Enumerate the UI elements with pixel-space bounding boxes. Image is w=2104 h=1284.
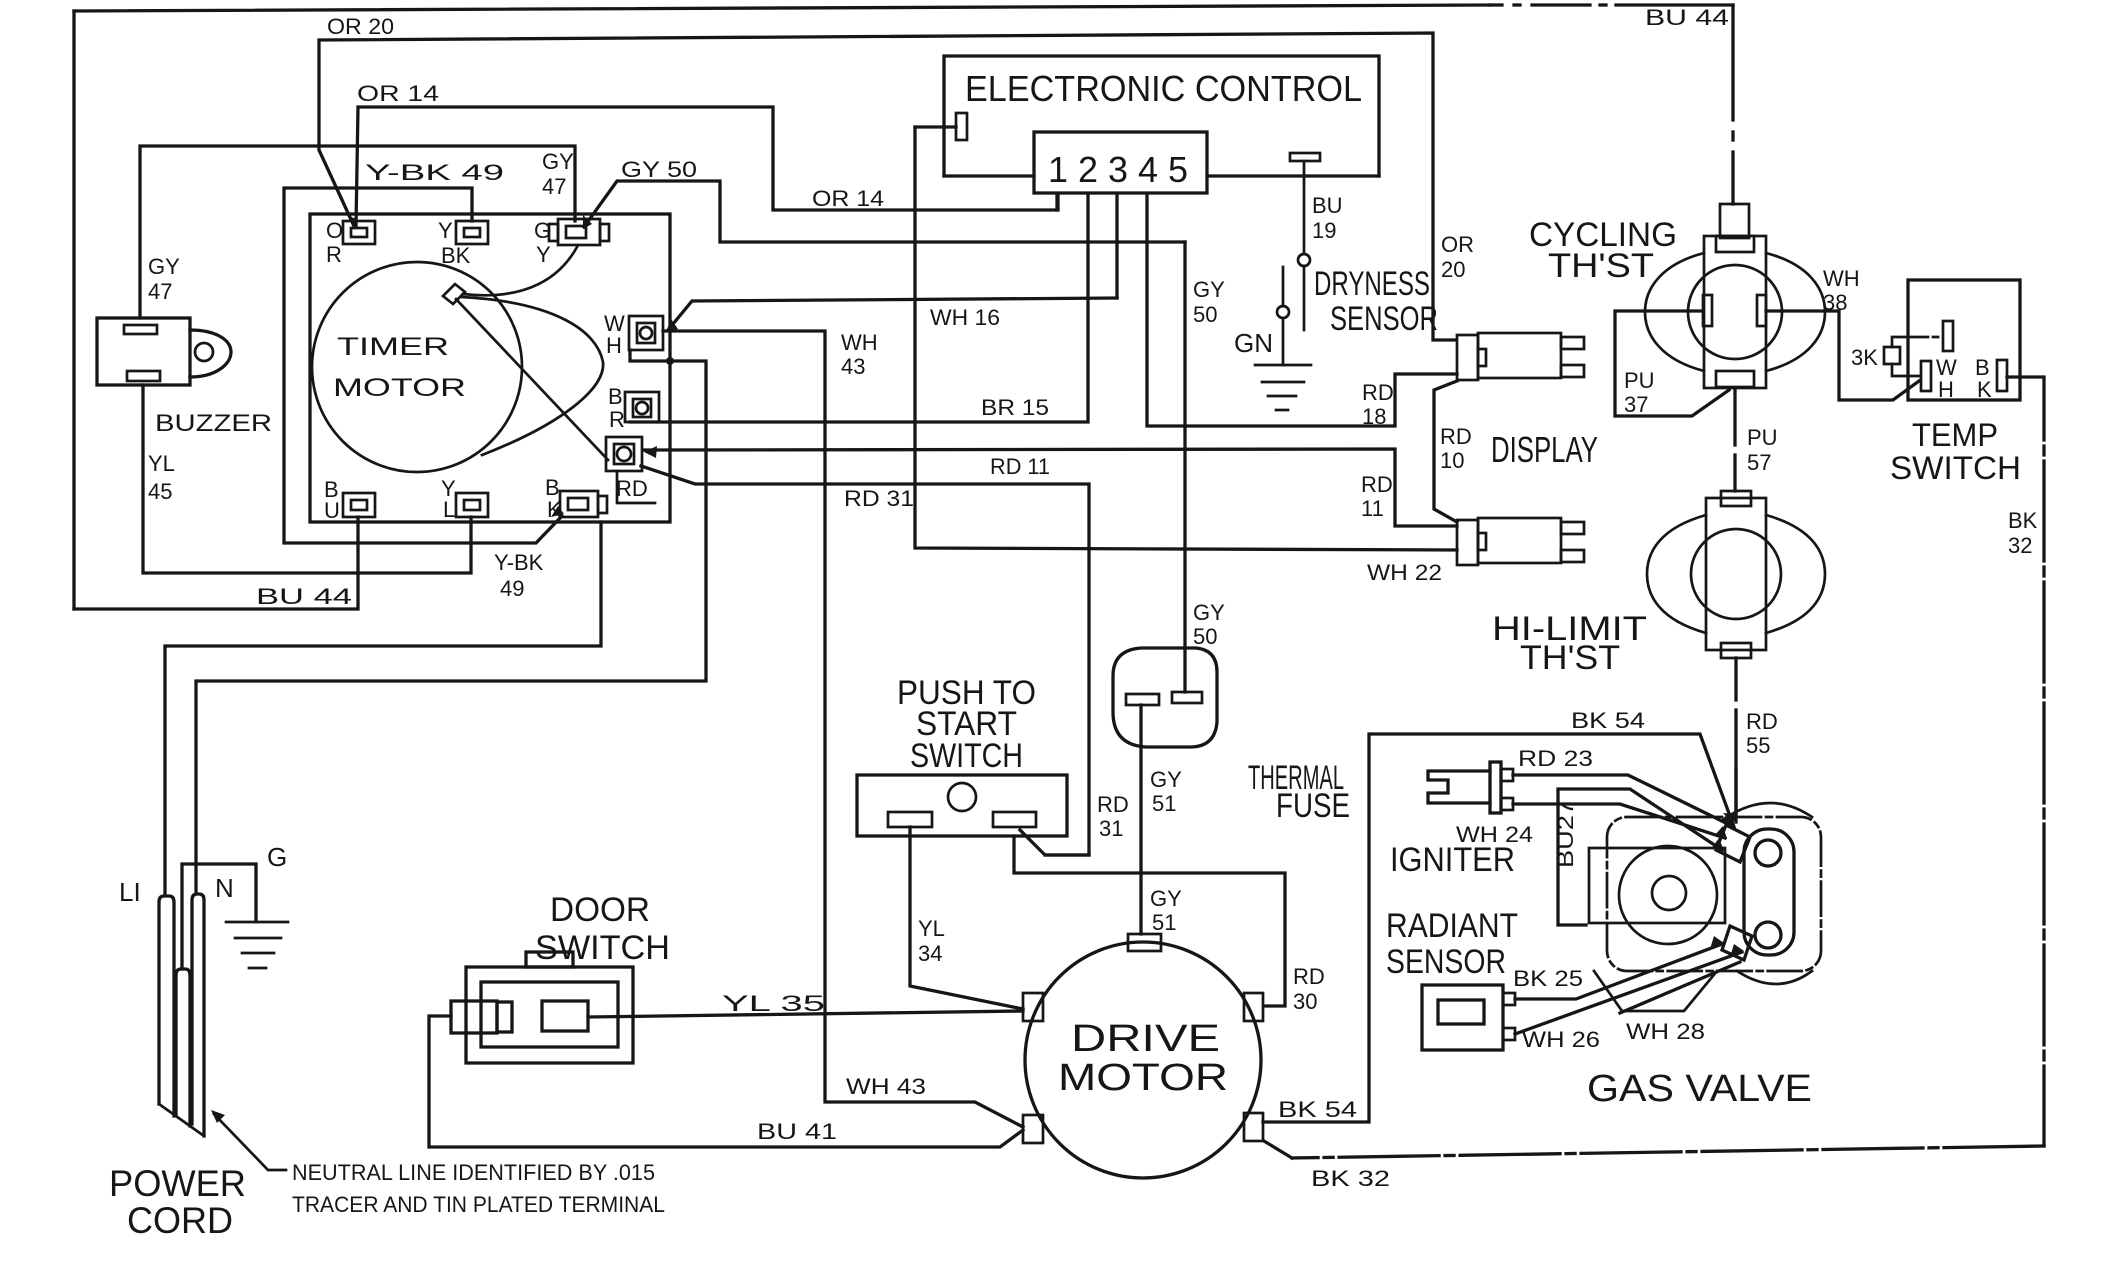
gas valve terminal block lower bbox=[1722, 926, 1752, 960]
svg-text:DRIVE: DRIVE bbox=[1071, 1018, 1220, 1060]
svg-text:PU: PU bbox=[1624, 368, 1655, 393]
gas valve coil inner circle bbox=[1652, 876, 1686, 910]
push switch right bar bbox=[993, 812, 1036, 827]
igniter prong top bbox=[1501, 769, 1513, 781]
svg-text:YL: YL bbox=[148, 451, 175, 476]
wire Y-BK49 loop bbox=[284, 188, 562, 543]
gas valve bracket bbox=[1744, 829, 1794, 955]
wire GY50 diagonal bbox=[584, 181, 1185, 242]
svg-text:MOTOR: MOTOR bbox=[333, 374, 466, 402]
svg-text:SENSOR: SENSOR bbox=[1330, 300, 1438, 338]
svg-text:RD: RD bbox=[1362, 380, 1394, 405]
timer RD stub bbox=[617, 471, 655, 503]
wire PU37 loop bbox=[1615, 311, 1729, 416]
svg-text:DOOR: DOOR bbox=[550, 891, 650, 929]
svg-text:DISPLAY: DISPLAY bbox=[1491, 429, 1598, 470]
svg-text:BR 15: BR 15 bbox=[981, 395, 1049, 420]
svg-text:BK 32: BK 32 bbox=[1311, 1166, 1390, 1191]
svg-text:RD: RD bbox=[1746, 709, 1778, 734]
dryness electrode left stick to ground bbox=[1282, 318, 1285, 365]
wire WH24 bbox=[1513, 804, 1725, 838]
timer terminal RD bbox=[606, 437, 642, 471]
control left tab pin bbox=[956, 113, 967, 140]
svg-text:PU: PU bbox=[1747, 425, 1778, 450]
svg-text:L: L bbox=[443, 497, 455, 522]
svg-text:R: R bbox=[326, 242, 342, 267]
svg-text:Y-BK 49: Y-BK 49 bbox=[365, 160, 504, 185]
control pin4 wire RD18 bbox=[1147, 194, 1457, 426]
wire WH22 bbox=[915, 127, 1457, 550]
svg-text:SWITCH: SWITCH bbox=[1890, 450, 2021, 486]
push switch button circle bbox=[948, 783, 976, 811]
svg-text:H: H bbox=[1938, 377, 1954, 402]
svg-text:RD 11: RD 11 bbox=[990, 454, 1050, 479]
power cord prong middle bbox=[176, 969, 190, 1126]
timer terminal O-R bbox=[343, 221, 375, 244]
wire PU57 bbox=[1733, 388, 1736, 445]
timer terminal box bbox=[310, 214, 670, 522]
svg-text:BU 41: BU 41 bbox=[757, 1119, 837, 1144]
svg-text:G: G bbox=[267, 842, 287, 872]
svg-text:1 2 3 4 5: 1 2 3 4 5 bbox=[1048, 149, 1188, 190]
temp switch box bbox=[1908, 280, 2020, 400]
wire OR20 bbox=[319, 33, 1456, 340]
gas valve coil box bbox=[1589, 848, 1725, 923]
dryness electrode right circle bbox=[1298, 254, 1310, 266]
svg-text:51: 51 bbox=[1152, 910, 1176, 935]
wire RD31 bbox=[641, 466, 1089, 855]
svg-text:YL 35: YL 35 bbox=[722, 991, 825, 1016]
timer terminal Y-BK bbox=[456, 221, 488, 244]
svg-text:Y: Y bbox=[438, 218, 453, 243]
svg-text:GY: GY bbox=[1193, 277, 1225, 302]
wire RD30 bbox=[1014, 836, 1285, 1006]
arrow WH26 into lower block bbox=[1730, 944, 1744, 957]
thermal fuse left bar bbox=[1126, 694, 1159, 705]
control pin3 wire bbox=[1115, 194, 1118, 298]
wire RD55 bbox=[1734, 658, 1737, 700]
svg-text:B: B bbox=[608, 384, 623, 409]
wire BK54 motor to gas valve bbox=[1263, 734, 1734, 1122]
svg-text:BU27: BU27 bbox=[1553, 800, 1578, 868]
svg-text:MOTOR: MOTOR bbox=[1058, 1057, 1228, 1099]
timer terminal Y-L bbox=[456, 493, 488, 517]
arrow BK25 into lower block bbox=[1710, 936, 1724, 949]
svg-text:34: 34 bbox=[918, 941, 942, 966]
wire WH28 bbox=[1620, 962, 1740, 1013]
dryness sensor pin bar BU19 bbox=[1290, 153, 1320, 161]
wire YL35 bbox=[588, 1011, 1023, 1017]
hi-limit thermostat body bbox=[1647, 491, 1825, 658]
svg-text:RD 31: RD 31 bbox=[844, 486, 914, 511]
radiant sensor slot bbox=[1438, 1000, 1484, 1024]
timer cam diagonal bbox=[456, 299, 608, 460]
buzzer terminal top bbox=[124, 325, 157, 334]
timer cam teardrop curve bbox=[462, 297, 603, 455]
svg-text:BU 44: BU 44 bbox=[256, 584, 352, 609]
svg-text:GY: GY bbox=[148, 254, 180, 279]
svg-text:FUSE: FUSE bbox=[1276, 787, 1350, 825]
door switch left plug bbox=[451, 1001, 497, 1033]
svg-text:GN: GN bbox=[1234, 328, 1273, 358]
electronic control box bottom right bbox=[1207, 174, 1379, 177]
svg-text:WH: WH bbox=[841, 330, 878, 355]
svg-text:TEMP: TEMP bbox=[1912, 417, 1998, 453]
timer cam curve to GY terminal bbox=[463, 247, 577, 295]
wire BK: B-K terminal to L1 prong bbox=[165, 522, 601, 894]
svg-text:YL: YL bbox=[918, 916, 945, 941]
svg-text:47: 47 bbox=[542, 174, 566, 199]
arrow RD11 into RD terminal bbox=[644, 446, 657, 458]
radiant sensor prong top bbox=[1503, 993, 1515, 1005]
arrow BU27 into valve bbox=[1711, 838, 1724, 851]
svg-text:50: 50 bbox=[1193, 302, 1217, 327]
svg-text:RADIANT: RADIANT bbox=[1386, 907, 1518, 945]
wire YL45 bbox=[143, 385, 471, 573]
svg-text:WH 43: WH 43 bbox=[846, 1074, 926, 1099]
gas valve top flange bbox=[1727, 803, 1812, 817]
wire G jog bbox=[182, 864, 256, 969]
ground symbol (power) bbox=[226, 922, 288, 968]
igniter plug outline bbox=[1428, 771, 1490, 803]
svg-text:RD: RD bbox=[1293, 964, 1325, 989]
timer terminal B-K bbox=[560, 491, 607, 517]
wire 3K to W-H pin bbox=[1892, 364, 1921, 376]
svg-text:3K: 3K bbox=[1851, 345, 1878, 370]
svg-text:O: O bbox=[326, 218, 343, 243]
svg-text:R: R bbox=[609, 407, 625, 432]
svg-text:19: 19 bbox=[1312, 218, 1336, 243]
buzzer dome hole bbox=[195, 343, 213, 361]
timer terminal G-Y bbox=[549, 219, 609, 245]
motor tab left lower bbox=[1023, 1115, 1043, 1143]
wire RD10 between connectors bbox=[1434, 381, 1457, 522]
door switch top tab bbox=[526, 952, 573, 967]
svg-text:55: 55 bbox=[1746, 733, 1770, 758]
wire RD11 bbox=[643, 449, 1457, 526]
svg-text:DRYNESS: DRYNESS bbox=[1314, 265, 1430, 303]
svg-text:SWITCH: SWITCH bbox=[910, 737, 1023, 775]
push to start switch box bbox=[857, 775, 1067, 836]
door switch outer box bbox=[466, 967, 633, 1063]
temp switch W-H pin bbox=[1921, 361, 1931, 391]
arrow into B-K terminal bbox=[551, 506, 564, 517]
wire RD31 into right bar bbox=[1045, 853, 1089, 856]
svg-text:BK 54: BK 54 bbox=[1278, 1097, 1357, 1122]
display connector top bbox=[1457, 333, 1584, 380]
wire left border BU44 bbox=[72, 11, 75, 609]
motor tab left upper bbox=[1023, 993, 1043, 1021]
svg-text:TH'ST: TH'ST bbox=[1548, 247, 1654, 285]
cycling thermostat body bbox=[1645, 204, 1825, 388]
svg-text:RD: RD bbox=[1361, 472, 1393, 497]
svg-text:Y-BK: Y-BK bbox=[494, 550, 544, 575]
svg-text:WH 26: WH 26 bbox=[1522, 1027, 1600, 1052]
wire BK32 diag to motor bbox=[1264, 1141, 1292, 1158]
svg-text:GY 50: GY 50 bbox=[621, 157, 697, 182]
thermal fuse body bbox=[1113, 648, 1217, 747]
svg-text:32: 32 bbox=[2008, 533, 2032, 558]
svg-text:WH: WH bbox=[1823, 266, 1860, 291]
gas valve terminal block upper bbox=[1716, 825, 1750, 862]
temp switch top pin bbox=[1943, 321, 1953, 351]
gas valve body bbox=[1607, 817, 1821, 971]
wire WH38 bbox=[1766, 311, 1919, 400]
control pin1 wire bbox=[1055, 194, 1058, 210]
wire GY51 fuse to motor bbox=[1139, 705, 1142, 934]
svg-text:50: 50 bbox=[1193, 624, 1217, 649]
svg-text:GY: GY bbox=[1193, 600, 1225, 625]
motor tab top bbox=[1128, 934, 1161, 951]
svg-text:RD: RD bbox=[1097, 792, 1129, 817]
svg-text:31: 31 bbox=[1099, 816, 1123, 841]
wire top border dash-dot to BU44 corner bbox=[1490, 3, 1502, 6]
svg-text:WH 16: WH 16 bbox=[930, 305, 1000, 330]
wire BK25 bbox=[1515, 944, 1722, 999]
svg-text:57: 57 bbox=[1747, 450, 1771, 475]
arrow neutral note bbox=[211, 1110, 225, 1123]
temp switch B-K pin bbox=[1997, 360, 2007, 391]
wire BU19 bbox=[1303, 161, 1306, 254]
dryness electrode left circle bbox=[1277, 306, 1289, 318]
igniter prong bottom bbox=[1501, 798, 1513, 810]
wire 3K to top pin bbox=[1892, 337, 1943, 347]
push switch left bar bbox=[888, 812, 932, 827]
svg-text:BU: BU bbox=[1312, 193, 1343, 218]
svg-text:WH 22: WH 22 bbox=[1367, 560, 1442, 585]
thermal fuse right bar bbox=[1172, 692, 1202, 703]
svg-text:49: 49 bbox=[500, 576, 524, 601]
svg-text:GY: GY bbox=[1150, 886, 1182, 911]
svg-text:TH'ST: TH'ST bbox=[1520, 639, 1620, 677]
wire RD55 end bbox=[1734, 770, 1737, 822]
svg-text:WH 28: WH 28 bbox=[1626, 1019, 1705, 1044]
igniter plug face bar bbox=[1490, 762, 1501, 813]
svg-text:47: 47 bbox=[148, 279, 172, 304]
electronic control box bottom left bbox=[944, 174, 1034, 177]
svg-text:51: 51 bbox=[1152, 791, 1176, 816]
arrow into G-Y terminal bbox=[583, 215, 592, 229]
arrow BK54 into valve bbox=[1723, 813, 1737, 824]
wire WH16 bbox=[668, 298, 1117, 330]
svg-text:OR 14: OR 14 bbox=[357, 81, 439, 106]
svg-text:18: 18 bbox=[1362, 404, 1386, 429]
dryness electrode left stick upper bbox=[1282, 267, 1285, 306]
power cord cut line bbox=[159, 1104, 204, 1136]
display connector bottom bbox=[1457, 518, 1584, 565]
timer terminal B-U bbox=[343, 493, 375, 517]
electronic control box bbox=[944, 56, 1379, 176]
junction dot W-H bottom bbox=[666, 357, 674, 365]
wire OR14 bbox=[356, 107, 1058, 226]
svg-text:RD: RD bbox=[616, 476, 648, 501]
buzzer body bbox=[97, 318, 190, 385]
svg-text:BK 54: BK 54 bbox=[1571, 708, 1645, 733]
gas valve bracket hole top bbox=[1755, 840, 1781, 866]
radiant sensor box bbox=[1422, 985, 1503, 1050]
leader neutral note bbox=[214, 1114, 286, 1170]
svg-text:TIMER: TIMER bbox=[337, 333, 449, 361]
gas valve coil outer circle bbox=[1619, 846, 1717, 944]
radiant sensor prong bottom bbox=[1503, 1028, 1515, 1040]
wire GY50 vertical to fuse bbox=[1183, 242, 1186, 692]
buzzer dome bbox=[190, 330, 231, 377]
svg-text:N: N bbox=[215, 873, 234, 903]
svg-text:K: K bbox=[1977, 377, 1992, 402]
svg-text:ELECTRONIC CONTROL: ELECTRONIC CONTROL bbox=[965, 68, 1362, 109]
wire BU41 bbox=[429, 1016, 1023, 1147]
door switch inner box bbox=[481, 982, 618, 1047]
svg-text:SWITCH: SWITCH bbox=[535, 929, 670, 967]
svg-text:H: H bbox=[606, 333, 622, 358]
svg-text:OR: OR bbox=[1441, 232, 1474, 257]
svg-text:20: 20 bbox=[1441, 257, 1465, 282]
svg-text:BU 44: BU 44 bbox=[1645, 5, 1729, 30]
svg-text:38: 38 bbox=[1823, 290, 1847, 315]
svg-text:GY: GY bbox=[1150, 767, 1182, 792]
wire GY47 buzzer to GY terminal bbox=[140, 146, 575, 318]
svg-text:OR 20: OR 20 bbox=[327, 14, 394, 39]
svg-text:BK: BK bbox=[2008, 508, 2038, 533]
door switch inner contact bbox=[542, 1001, 588, 1031]
wire WH: N prong to W-H terminal area bbox=[196, 350, 706, 894]
door switch left plug bar bbox=[497, 1002, 512, 1032]
svg-text:CORD: CORD bbox=[127, 1200, 233, 1241]
timer motor circle bbox=[312, 262, 522, 472]
svg-text:BK 25: BK 25 bbox=[1513, 966, 1583, 991]
svg-text:RD: RD bbox=[1440, 424, 1472, 449]
buzzer terminal bottom bbox=[127, 371, 160, 381]
wire WH43 bbox=[663, 331, 1023, 1127]
arrow WH24 into valve bbox=[1714, 826, 1727, 839]
svg-text:U: U bbox=[324, 498, 340, 523]
ground symbol GN bbox=[1255, 365, 1311, 410]
svg-text:WH 24: WH 24 bbox=[1456, 822, 1533, 847]
svg-text:BUZZER: BUZZER bbox=[155, 410, 272, 437]
svg-text:37: 37 bbox=[1624, 392, 1648, 417]
motor tab right upper bbox=[1244, 993, 1263, 1021]
gas valve bottom hexagon bbox=[1594, 971, 1717, 1011]
drive motor circle bbox=[1025, 942, 1261, 1178]
control pin2 wire BR15 bbox=[630, 194, 1088, 422]
wire BU44 vertical right bbox=[1731, 5, 1734, 120]
wire WH26 bbox=[1515, 952, 1742, 1034]
svg-text:10: 10 bbox=[1440, 448, 1464, 473]
gas valve bracket hole bottom bbox=[1755, 922, 1781, 948]
power cord prong N bbox=[192, 894, 204, 1136]
svg-text:TRACER AND TIN PLATED TERMINAL: TRACER AND TIN PLATED TERMINAL bbox=[292, 1192, 665, 1217]
arrow into O-R terminal bbox=[347, 215, 358, 228]
svg-text:POWER: POWER bbox=[109, 1163, 246, 1204]
gas valve bottom flange bbox=[1737, 971, 1812, 984]
svg-text:11: 11 bbox=[1361, 496, 1384, 521]
timer terminal B-R bbox=[625, 392, 659, 422]
wire BU44 bottom horizontal bbox=[74, 517, 358, 609]
dryness electrode right stick bbox=[1303, 266, 1306, 330]
svg-text:OR 14: OR 14 bbox=[812, 186, 884, 211]
svg-text:G: G bbox=[534, 218, 551, 243]
wire BU27 bbox=[1558, 789, 1722, 925]
wire RD23 bbox=[1513, 775, 1730, 825]
power cord prong L1 bbox=[159, 896, 174, 1116]
svg-text:SENSOR: SENSOR bbox=[1386, 943, 1506, 981]
resistor 3K box bbox=[1884, 347, 1900, 364]
svg-text:GY: GY bbox=[542, 149, 574, 174]
timer terminal W-H bbox=[629, 316, 663, 350]
arrow RD23 into valve bbox=[1719, 813, 1732, 826]
svg-text:RD 23: RD 23 bbox=[1518, 746, 1593, 771]
wire BK32 bottom bbox=[1292, 1146, 2044, 1158]
motor tab right lower bbox=[1244, 1113, 1263, 1141]
svg-text:Y: Y bbox=[536, 242, 551, 267]
svg-text:GAS VALVE: GAS VALVE bbox=[1587, 1068, 1812, 1110]
svg-text:NEUTRAL LINE IDENTIFIED BY .01: NEUTRAL LINE IDENTIFIED BY .015 bbox=[292, 1160, 655, 1185]
wire top border bbox=[74, 5, 1490, 11]
svg-text:LI: LI bbox=[119, 877, 141, 907]
control connector box 1-5 bbox=[1034, 132, 1207, 193]
timer cam flag bbox=[443, 284, 465, 304]
svg-text:43: 43 bbox=[841, 354, 865, 379]
wire YL34 bbox=[910, 827, 1023, 1009]
arrow WH16 into W-H bbox=[666, 319, 678, 332]
svg-text:30: 30 bbox=[1293, 989, 1317, 1014]
svg-text:BK: BK bbox=[441, 243, 471, 268]
wire tab to WH22 vertical bbox=[915, 125, 956, 128]
svg-text:45: 45 bbox=[148, 479, 172, 504]
wire BK32 right side bbox=[2007, 377, 2044, 1146]
